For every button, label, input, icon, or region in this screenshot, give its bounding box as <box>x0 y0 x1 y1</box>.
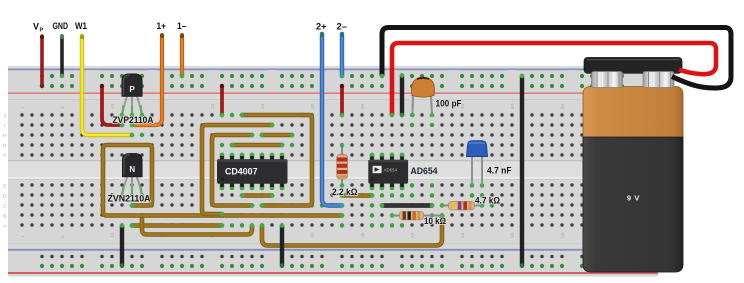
rail gap covers <box>87 70 637 272</box>
svg-text:P: P <box>129 85 135 94</box>
resistor R3 4.7k horizontal rowC col43-col47 <box>440 201 484 210</box>
svg-text:CD4007: CD4007 <box>225 166 258 176</box>
svg-text:1: 1 <box>20 106 26 109</box>
resistor R1 2.2k vertical col33 G-E <box>337 143 348 187</box>
center channel <box>8 160 658 180</box>
wire brown ZVN gate loop (col12 C around ZVN to col33 B) <box>103 145 342 216</box>
wire red rail to col33 rowJ <box>340 86 344 115</box>
wire orange 1+ probe col15 to rowI col12 <box>132 35 162 125</box>
svg-text:P: P <box>40 28 44 34</box>
top power rail holes (green, rows at y76,86) <box>37 71 627 91</box>
svg-text:5: 5 <box>60 235 66 238</box>
svg-text:ZVP2110A: ZVP2110A <box>113 114 154 125</box>
svg-text:45: 45 <box>460 232 466 238</box>
svg-text:10: 10 <box>110 103 116 109</box>
wire black long col51 top rail to bottom rail <box>520 76 524 266</box>
top rail blue line <box>8 68 658 70</box>
svg-text:D: D <box>3 194 7 200</box>
svg-text:9 V: 9 V <box>627 194 641 203</box>
svg-text:10 kΩ: 10 kΩ <box>424 215 446 226</box>
svg-text:G: G <box>3 143 7 149</box>
svg-text:100 pF: 100 pF <box>436 97 462 108</box>
svg-text:10: 10 <box>110 232 116 238</box>
wire brown rowD (col33-col36) <box>342 193 372 198</box>
svg-text:ZVN2110A: ZVN2110A <box>108 192 151 203</box>
svg-text:2–: 2– <box>337 22 348 32</box>
svg-text:W1: W1 <box>75 21 87 31</box>
labels <box>33 21 347 34</box>
resistor R2 10k horizontal rowB col38-col43 <box>390 211 444 220</box>
IC U1 CD4007 DIP-14 cols21-27 <box>217 153 288 190</box>
breadboard body <box>8 66 658 277</box>
wire brown U (col13 B down, right, up to col24 A) <box>142 216 252 235</box>
wire red rail to col21 rowJ <box>220 86 224 115</box>
battery body <box>583 87 683 273</box>
svg-text:AD654: AD654 <box>411 166 439 177</box>
transistor Q1 ZVP2110A (P-MOSFET) cols11-13 <box>120 74 144 117</box>
svg-text:4.7 nF: 4.7 nF <box>487 164 512 175</box>
svg-text:1–: 1– <box>177 21 187 31</box>
svg-text:20: 20 <box>210 103 216 109</box>
battery 9V <box>583 58 683 273</box>
capacitor C2 4.7nF blue box col46/col47 rowE <box>467 141 488 188</box>
svg-text:F: F <box>3 153 6 159</box>
svg-text:GND: GND <box>53 21 69 31</box>
svg-text:25: 25 <box>260 103 266 109</box>
bottom rail blue line <box>8 249 658 251</box>
wire black GND probe col5 <box>60 36 64 76</box>
svg-text:30: 30 <box>310 232 316 238</box>
wire brown rowG (col22-col28) <box>232 143 282 148</box>
svg-text:50: 50 <box>510 232 516 238</box>
capacitor C1 100pF disc col40/col42 rowJ <box>410 77 434 117</box>
main grid holes upper bank rows J-F <box>17 110 647 160</box>
wire black col11 rowA to bottom rail <box>120 226 124 266</box>
svg-text:35: 35 <box>360 232 366 238</box>
wire brown rowH short (col25-col28) <box>262 133 292 138</box>
svg-text:I: I <box>4 123 5 129</box>
wire black col27 rowA to bottom rail <box>280 226 284 266</box>
svg-text:B: B <box>3 214 6 220</box>
svg-text:4.7 kΩ: 4.7 kΩ <box>475 194 500 205</box>
svg-text:H: H <box>3 133 7 139</box>
svg-text:50: 50 <box>510 103 516 109</box>
top rail red line <box>8 92 658 94</box>
svg-text:5: 5 <box>60 106 66 109</box>
wire brown U rowH col24 to col20 down to rowC col24 <box>212 135 252 206</box>
wire red Vp probe col3 <box>40 36 44 86</box>
svg-text:2+: 2+ <box>316 22 327 32</box>
svg-text:2.2 kΩ: 2.2 kΩ <box>332 186 358 197</box>
wire brown rowA jumper (col12 A to col21 A) <box>132 223 222 228</box>
svg-text:30: 30 <box>310 103 316 109</box>
svg-text:35: 35 <box>360 103 366 109</box>
wire blue 2+ probe col31 to rowC col33 <box>322 34 342 206</box>
svg-text:1+: 1+ <box>157 21 167 31</box>
svg-text:N: N <box>129 165 135 174</box>
wire brown rowD (col23-col26) <box>242 193 272 198</box>
svg-text:A: A <box>3 224 7 230</box>
svg-text:E: E <box>3 184 6 190</box>
svg-text:C: C <box>3 204 7 210</box>
wire orange 1- probe col17 to top rail <box>180 35 184 76</box>
bottom power rail hole row 1 (dark) <box>37 252 627 262</box>
wire red battery positive loop <box>392 43 716 115</box>
row letter labels <box>3 113 7 230</box>
wire brown long U (col25 A down, right, up to col43 B) <box>262 216 442 246</box>
column number labels <box>20 103 616 238</box>
wire blue 2- probe col33 to top rail <box>340 34 344 76</box>
main grid holes lower bank rows E-A <box>17 181 647 231</box>
svg-text:55: 55 <box>560 103 566 109</box>
bottom rail red line <box>8 272 658 274</box>
IC U2 AD654 DIP-8 cols36-39 <box>368 153 408 190</box>
battery clip terminal 2 <box>643 72 674 88</box>
battery top cap <box>584 58 682 74</box>
wire black jumper rowC col37-col42 <box>382 203 432 208</box>
svg-text:55: 55 <box>560 232 566 238</box>
bottom power rail hole row 2 (green) <box>37 261 627 271</box>
battery clip terminal 1 <box>592 72 623 88</box>
wire black gnd-bus jumper col39 rail to rowJ <box>400 76 404 116</box>
wire brown rowJ to col30 down to rowC (col23 J - col30 J - col30 C - col26 C) <box>242 115 312 206</box>
wire brown rowI col26 to col19 down to rowB col21 <box>202 125 272 214</box>
wire red rail to ZVP source (col9 rail to col11 rowI) <box>102 86 122 125</box>
svg-text:1: 1 <box>20 235 26 238</box>
wire yellow W1 probe col7 to rowH col12 <box>82 36 132 135</box>
green connected holes overlay <box>120 113 524 228</box>
transistor Q2 ZVN2110A (N-MOSFET) cols11-13 <box>120 153 144 197</box>
svg-text:40: 40 <box>410 232 416 238</box>
svg-text:J: J <box>4 113 7 119</box>
wire black battery negative loop <box>382 28 731 89</box>
svg-text:AD654: AD654 <box>384 168 398 174</box>
svg-text:V: V <box>33 22 39 32</box>
